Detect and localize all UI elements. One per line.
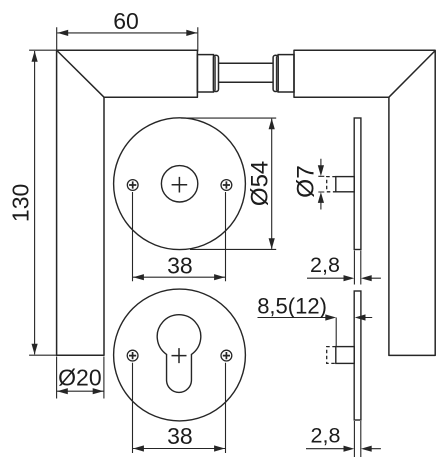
bottom rosette circle bbox=[114, 289, 246, 421]
dim 2,8 top extension lines bbox=[354, 251, 360, 285]
top rosette circle bbox=[114, 118, 246, 250]
dim O7 arrow stems bbox=[320, 159, 322, 210]
right neck ring contour bbox=[275, 56, 277, 90]
top rosette hub circle bbox=[161, 166, 197, 202]
dim 8,5(12) connector bbox=[335, 318, 337, 347]
dim 8,5(12) leader line bbox=[258, 317, 373, 319]
arrow O20 left bbox=[57, 388, 68, 394]
right handle corner diagonal bbox=[389, 51, 435, 98]
arrow 130 up bbox=[32, 51, 38, 62]
svg-text:38: 38 bbox=[167, 252, 193, 278]
svg-text:8,5(12): 8,5(12) bbox=[257, 293, 327, 318]
svg-text:60: 60 bbox=[113, 8, 139, 34]
svg-text:Ø20: Ø20 bbox=[58, 365, 101, 391]
bottom rosette cross bbox=[172, 348, 187, 363]
arrow O54 up bbox=[269, 118, 275, 129]
arrow O54 down bbox=[269, 238, 275, 249]
arrow 2,8 bottom right-pointing bbox=[344, 446, 355, 452]
left neck ring contour bbox=[214, 56, 216, 90]
right neck ring bbox=[273, 55, 278, 91]
left collar bbox=[197, 55, 213, 92]
svg-text:38: 38 bbox=[167, 423, 193, 449]
right collar bbox=[278, 55, 294, 92]
left neck ring bbox=[214, 55, 219, 91]
bottom rosette screw right bbox=[221, 350, 232, 361]
svg-text:2,8: 2,8 bbox=[311, 423, 341, 447]
left handle outline bbox=[57, 50, 198, 355]
upper rosette side plate bbox=[354, 118, 361, 250]
lower cylinder stub bbox=[336, 347, 354, 364]
dim 2,8 top leader lines bbox=[307, 277, 381, 279]
dim 60 extension lines bbox=[57, 27, 198, 51]
dim O54 line bbox=[271, 119, 273, 249]
arrow 2,8 bottom left-pointing bbox=[361, 446, 372, 452]
arrow O20 right bbox=[93, 388, 104, 394]
dim 60 line bbox=[57, 32, 197, 34]
arrow O7 up bbox=[318, 192, 324, 203]
lower rosette side plate bbox=[354, 291, 361, 420]
dim 38 top extension lines bbox=[133, 192, 226, 281]
lower stub hidden part (dashed) bbox=[327, 347, 336, 364]
spindle bbox=[219, 62, 274, 64]
dim 38 bottom line bbox=[133, 448, 225, 450]
top rosette spindle cross bbox=[172, 177, 188, 193]
right handle outline bbox=[294, 50, 435, 355]
top rosette screw right bbox=[221, 180, 232, 191]
dim O20 line bbox=[57, 390, 104, 392]
dim O7 ticks bbox=[318, 176, 324, 192]
arrow 38 bottom left bbox=[133, 445, 144, 451]
dim 130 line bbox=[34, 51, 36, 354]
arrow 8,5(12) left-pointing bbox=[355, 314, 366, 320]
svg-text:130: 130 bbox=[8, 184, 34, 222]
euro cylinder keyhole bbox=[157, 315, 201, 393]
upper stub hidden part (dashed) bbox=[327, 177, 336, 192]
arrow 38 top right bbox=[214, 274, 225, 280]
arrow 2,8 top right-pointing bbox=[344, 275, 355, 281]
dim O20 extension lines bbox=[57, 357, 104, 399]
arrow 130 down bbox=[32, 344, 38, 355]
left handle corner diagonal bbox=[57, 51, 104, 98]
svg-text:Ø54: Ø54 bbox=[247, 161, 274, 206]
dim O54 extension lines bbox=[181, 118, 276, 249]
dim 2,8 bottom leader lines bbox=[306, 448, 381, 450]
dim 2,8 bottom extension lines bbox=[354, 421, 360, 457]
top rosette screw left bbox=[127, 180, 138, 191]
dim 38 top line bbox=[133, 276, 225, 278]
upper spindle stub bbox=[336, 177, 354, 192]
arrow 2,8 top left-pointing bbox=[361, 275, 372, 281]
arrow 8,5(12) right-pointing bbox=[325, 314, 336, 320]
arrow 60 left bbox=[57, 30, 68, 36]
arrow O7 down bbox=[318, 165, 324, 176]
svg-text:Ø7: Ø7 bbox=[293, 165, 320, 198]
arrow 60 right bbox=[186, 30, 197, 36]
dim 38 bottom extension lines bbox=[133, 363, 226, 453]
dim 130 extension lines bbox=[29, 50, 56, 355]
svg-text:2,8: 2,8 bbox=[310, 253, 340, 277]
bottom rosette screw left bbox=[127, 350, 138, 361]
arrow 38 top left bbox=[133, 274, 144, 280]
arrow 38 bottom right bbox=[214, 445, 225, 451]
